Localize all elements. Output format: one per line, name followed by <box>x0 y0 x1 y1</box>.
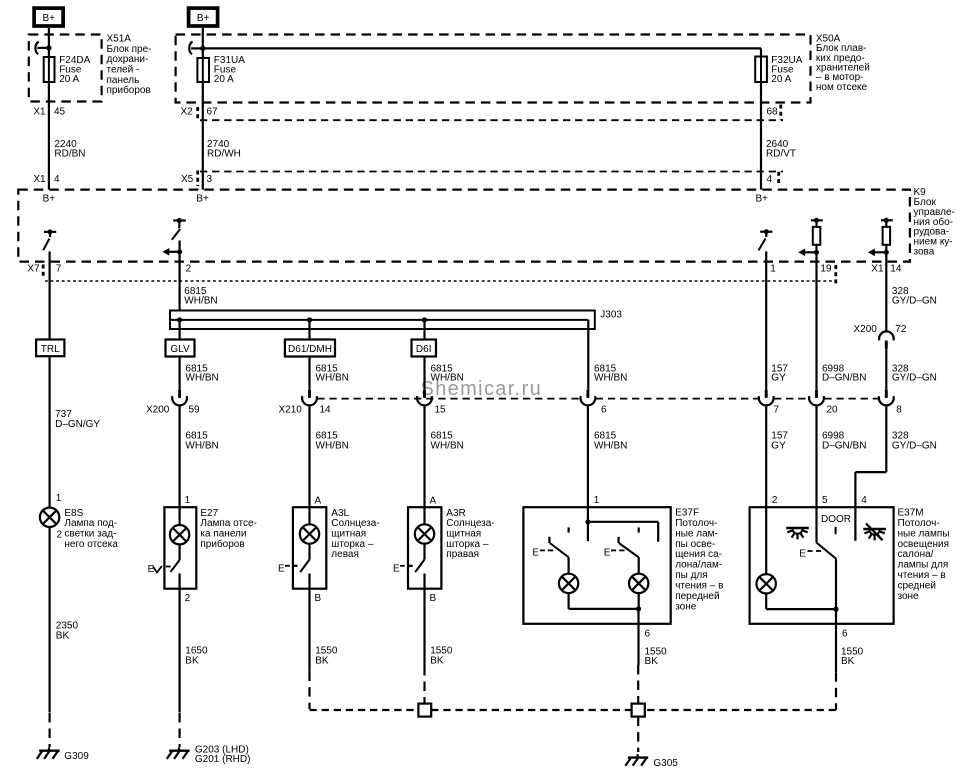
svg-text:B: B <box>430 593 437 604</box>
wire K9 to X7 pin 7 <box>48 251 50 261</box>
switch blade right E37F <box>619 543 639 557</box>
svg-text:GY/D–GN: GY/D–GN <box>892 440 937 451</box>
dome lamp unit E37M (box) <box>750 507 894 624</box>
svg-text:GY/D–GN: GY/D–GN <box>892 296 937 307</box>
wire D61 tag to connector <box>308 357 310 390</box>
svg-text:A: A <box>430 495 437 506</box>
svg-text:DOOR: DOOR <box>821 514 851 525</box>
wire pin7 to E37M pin2 <box>765 405 767 507</box>
connector pin 4 label right <box>767 172 779 186</box>
svg-text:X2: X2 <box>181 107 194 118</box>
svg-text:E: E <box>532 547 539 558</box>
lamp right in E37F <box>629 574 648 593</box>
switch in K9 (E37M feed) <box>759 229 773 250</box>
svg-text:A3R: A3R <box>446 508 465 519</box>
svg-text:WH/BN: WH/BN <box>185 440 218 451</box>
connector label X1 pin 14 <box>871 263 902 274</box>
wire fuse F31UA down <box>202 82 204 190</box>
svg-text:X200: X200 <box>146 404 170 415</box>
connector row line X5/4 <box>200 171 783 173</box>
svg-text:ка панели: ка панели <box>200 529 246 540</box>
svg-text:4: 4 <box>861 495 867 506</box>
manual actuation A3R <box>393 564 413 575</box>
svg-text:телей -: телей - <box>107 64 140 75</box>
connector row dashed line <box>317 398 878 400</box>
lamp in A3R <box>415 524 434 543</box>
pivot tick right switch E37F <box>617 537 619 543</box>
svg-text:GY/D–GN: GY/D–GN <box>892 373 937 384</box>
fuse block X51A (dashed box) <box>29 35 102 102</box>
wire switch A3L to pinB <box>308 574 310 672</box>
wire E27 pin1 to lamp <box>179 507 181 525</box>
wire 328 below X200 <box>885 349 887 390</box>
connector X200 pin 59 <box>146 390 200 416</box>
wire pin6 to E37F <box>587 405 589 507</box>
svg-text:6: 6 <box>842 629 848 640</box>
svg-text:B+: B+ <box>43 194 56 205</box>
manual actuation E27 <box>148 564 171 575</box>
wire K9 to pin 1 <box>765 251 767 261</box>
svg-text:X200: X200 <box>854 324 878 335</box>
tag GLV <box>166 340 195 357</box>
svg-text:X51A: X51A <box>107 33 132 44</box>
ground G305 <box>625 754 648 766</box>
svg-text:E37F: E37F <box>675 507 699 518</box>
wire pin15 to A3R <box>423 405 425 507</box>
switch blade E27 <box>171 560 180 572</box>
splice J303 <box>170 311 595 330</box>
svg-text:E: E <box>148 564 155 575</box>
wire blade to lamp right E37F <box>638 557 640 574</box>
wire E37M pin2 to lamp <box>765 507 767 574</box>
svg-text:Лампа отсе-: Лампа отсе- <box>200 518 256 529</box>
svg-text:2: 2 <box>57 529 63 540</box>
connector label X2 pin 67 <box>181 107 219 121</box>
svg-text:BK: BK <box>315 655 329 666</box>
svg-text:WH/BN: WH/BN <box>316 440 349 451</box>
wire J303 to E37F pin1 <box>587 320 589 390</box>
svg-text:Лампа под-: Лампа под- <box>64 518 117 529</box>
svg-text:4: 4 <box>54 174 60 185</box>
illumination icon right E37M <box>863 523 886 540</box>
wire GLV bus to tag <box>179 320 181 340</box>
connector pin 15 <box>417 390 446 416</box>
connector X210 pin 14 <box>279 390 332 416</box>
svg-text:чтения – в: чтения – в <box>898 570 946 581</box>
svg-text:X7: X7 <box>27 263 40 274</box>
switch blade A3L <box>300 560 309 573</box>
svg-text:GY: GY <box>771 373 786 384</box>
lamp in A3L <box>300 524 319 543</box>
connector pin 20 <box>809 390 838 416</box>
svg-text:67: 67 <box>207 107 219 118</box>
ground G309 <box>37 747 60 759</box>
wire E37F pin1 internal <box>587 507 589 541</box>
svg-text:щитная: щитная <box>331 529 366 540</box>
svg-text:D–GN/BN: D–GN/BN <box>822 373 866 384</box>
svg-text:X5: X5 <box>181 174 194 185</box>
svg-text:7: 7 <box>56 263 62 274</box>
svg-text:3: 3 <box>207 174 213 185</box>
connector pin 8 <box>879 390 902 416</box>
svg-text:TRL: TRL <box>41 344 60 355</box>
wire pin8 to E37M pin4 (jog) <box>855 405 886 507</box>
wire E8S down <box>48 527 50 713</box>
svg-text:X1: X1 <box>871 263 884 274</box>
svg-text:1: 1 <box>770 263 776 274</box>
manual actuation right E37F <box>604 547 625 558</box>
svg-text:68: 68 <box>767 107 779 118</box>
svg-text:B+: B+ <box>42 13 55 24</box>
fuse F32UA 20A <box>755 57 767 83</box>
connector X200 pin 72 <box>854 324 907 349</box>
svg-text:зова: зова <box>914 246 935 257</box>
wire D61 bus to tag <box>308 320 310 340</box>
svg-text:шторка –: шторка – <box>446 539 489 550</box>
wire E37M dashed to splice line <box>645 672 836 710</box>
lamp in E27 <box>170 525 189 544</box>
lamp in E37M <box>757 574 776 593</box>
wire fuse F24DA to connector X1-45 <box>48 82 50 190</box>
wire E37F dashed to splice S2 <box>637 665 639 704</box>
svg-text:ные лампы: ные лампы <box>898 528 950 539</box>
wire K9 to pin 2 <box>179 241 181 262</box>
svg-text:1: 1 <box>594 495 600 506</box>
svg-text:B: B <box>315 593 322 604</box>
svg-text:1: 1 <box>56 493 62 504</box>
wire GLV tag to connector <box>179 357 181 390</box>
wire switch E37M down <box>835 559 837 610</box>
svg-text:E: E <box>604 547 611 558</box>
switch in K9 (GLV feed) <box>172 218 186 240</box>
svg-text:14: 14 <box>320 404 332 415</box>
svg-text:B+: B+ <box>197 13 210 24</box>
manual actuation A3L <box>278 564 298 575</box>
svg-text:6: 6 <box>601 404 607 415</box>
svg-text:WH/BN: WH/BN <box>316 373 349 384</box>
ground G203/G201 <box>167 747 190 759</box>
pin 19 label <box>820 263 835 283</box>
svg-text:E: E <box>278 564 285 575</box>
svg-text:пы осве-: пы осве- <box>675 539 715 550</box>
svg-text:WH/BN: WH/BN <box>185 373 218 384</box>
wire 157 column upper <box>765 262 767 390</box>
wire A3L pinA to lamp <box>308 507 310 524</box>
svg-text:зоне: зоне <box>675 601 697 612</box>
node on J303 (D6I) <box>422 317 427 322</box>
svg-text:E: E <box>799 549 806 560</box>
svg-text:приборов: приборов <box>200 538 244 550</box>
sunshade motor unit A3L (box) <box>293 507 326 589</box>
switch blade left E37F <box>550 543 569 557</box>
svg-text:45: 45 <box>54 107 66 118</box>
svg-text:лона/лам-: лона/лам- <box>675 560 722 571</box>
svg-text:B+: B+ <box>196 194 209 205</box>
svg-text:ные лам-: ные лам- <box>675 528 718 539</box>
power symbol B+ (right) <box>189 8 218 26</box>
svg-text:E8S: E8S <box>64 508 83 519</box>
wire A3L dashed to splice <box>310 672 419 710</box>
svg-text:A: A <box>315 495 322 506</box>
DOOR label <box>821 514 851 534</box>
node on J303 (GLV) <box>177 317 182 322</box>
svg-text:пы для: пы для <box>675 570 707 581</box>
wire A3R dashed to splice <box>423 666 425 704</box>
svg-text:Солнцеза-: Солнцеза- <box>331 518 379 529</box>
svg-text:RD/VT: RD/VT <box>766 149 796 160</box>
svg-text:правая: правая <box>446 549 479 560</box>
wire switch A3R to pinB <box>423 574 425 667</box>
wire lamp to switch A3R <box>423 544 425 560</box>
svg-text:щения са-: щения са- <box>675 549 722 560</box>
arrow output GLV feed <box>162 248 182 256</box>
module K9 (dashed box) <box>18 190 910 262</box>
connector pin 68 label <box>767 105 781 120</box>
svg-text:D–GN/GY: D–GN/GY <box>55 419 100 430</box>
power symbol B+ (left) <box>34 8 63 26</box>
arrow output pin 14 <box>868 249 889 257</box>
svg-text:D61/DMH: D61/DMH <box>288 344 332 355</box>
wire X210-14 to A3L <box>308 405 310 507</box>
svg-text:1: 1 <box>185 495 191 506</box>
svg-text:X1: X1 <box>33 107 46 118</box>
wire K9 to pin 19 <box>815 245 817 262</box>
wire switch E27 to pin2 <box>179 573 181 712</box>
svg-text:панель: панель <box>107 75 140 86</box>
wire E37M pin6 exit <box>835 609 837 672</box>
svg-text:зоне: зоне <box>898 591 920 602</box>
feed branch E37F right <box>588 522 658 542</box>
bus tap curl in X50A <box>189 42 205 55</box>
svg-text:WH/BN: WH/BN <box>431 373 464 384</box>
svg-text:D–GN/BN: D–GN/BN <box>822 440 866 451</box>
wire blade to lamp left E37F <box>567 557 569 574</box>
svg-text:59: 59 <box>189 404 201 415</box>
svg-text:A3L: A3L <box>331 508 349 519</box>
driver output in K9 (pin 19) <box>811 218 823 245</box>
wire E27 dashed to ground <box>179 713 181 747</box>
manual actuation left E37F <box>532 547 553 558</box>
svg-text:E27: E27 <box>200 508 218 519</box>
svg-text:левая: левая <box>331 549 359 560</box>
wire pin20 to E37M pin5 <box>815 405 817 507</box>
svg-text:G305: G305 <box>653 758 678 769</box>
tag D61/DMH <box>285 340 335 357</box>
svg-text:D6I: D6I <box>416 344 432 355</box>
svg-text:Солнцеза-: Солнцеза- <box>446 518 494 529</box>
wire B+ right down <box>202 28 204 58</box>
lamp return wires E37F <box>569 593 642 611</box>
connector pin 6 <box>580 390 607 416</box>
connector label X1 pin 4 <box>33 174 60 185</box>
svg-text:RD/BN: RD/BN <box>54 149 85 160</box>
wire lamp to switch A3L <box>308 544 310 560</box>
svg-text:WH/BN: WH/BN <box>184 296 217 307</box>
driver output in K9 (pin 14) <box>881 218 893 245</box>
fuse F24DA 20A <box>44 57 55 82</box>
lamp return wire E37M <box>766 594 838 612</box>
svg-text:передней: передней <box>675 591 719 602</box>
svg-text:салона/: салона/ <box>898 549 934 560</box>
svg-text:20 A: 20 A <box>59 74 79 85</box>
svg-text:Потолоч-: Потолоч- <box>898 518 940 529</box>
wire lamp to switch E27 <box>179 544 181 560</box>
svg-text:X210: X210 <box>279 404 303 415</box>
svg-text:15: 15 <box>435 404 447 415</box>
svg-text:ном отсеке: ном отсеке <box>816 82 868 93</box>
lamp left in E37F <box>559 574 578 593</box>
svg-text:GLV: GLV <box>170 344 190 355</box>
wire B+ left down <box>48 28 50 57</box>
svg-text:RD/WH: RD/WH <box>207 149 241 160</box>
harness boundary dotted line <box>45 280 836 282</box>
wire 6998 column upper <box>815 262 817 390</box>
connector row line X2/68 <box>200 119 783 121</box>
svg-text:WH/BN: WH/BN <box>594 440 627 451</box>
svg-text:чтения – в: чтения – в <box>675 581 723 592</box>
wire GLV column to splice bus <box>179 262 181 311</box>
fuse F31UA 20A <box>197 58 209 82</box>
contact tick left switch E37F <box>567 527 569 532</box>
svg-text:BK: BK <box>841 656 855 667</box>
wire X200-59 to E27 <box>179 405 181 507</box>
svg-text:4: 4 <box>767 174 773 185</box>
wire A3R pinA to lamp <box>423 507 425 524</box>
manual actuation E37M <box>799 549 821 560</box>
wire fuse F32UA down <box>760 82 762 190</box>
svg-text:14: 14 <box>890 263 902 274</box>
svg-text:20: 20 <box>827 404 839 415</box>
arrow output pin 19 <box>798 249 819 257</box>
svg-text:J303: J303 <box>600 310 622 321</box>
svg-text:GY: GY <box>771 440 786 451</box>
feed wire to F32UA <box>203 48 761 56</box>
svg-text:шторка –: шторка – <box>331 539 374 550</box>
svg-text:8: 8 <box>896 404 902 415</box>
wire E37M pin4 internal <box>854 507 856 541</box>
svg-text:E37M: E37M <box>898 507 924 518</box>
svg-text:7: 7 <box>774 404 780 415</box>
node on J303 (D61) <box>307 317 312 322</box>
switch blade A3R <box>415 560 424 573</box>
switch blade E37M <box>817 543 837 559</box>
splice S1 <box>418 704 431 717</box>
lamp unit E27 (box) <box>164 507 196 589</box>
svg-text:него отсека: него отсека <box>64 539 118 550</box>
svg-text:2: 2 <box>186 263 192 274</box>
wire 328 column upper <box>885 262 887 332</box>
svg-text:светки зад-: светки зад- <box>64 529 116 540</box>
illumination icon left E37M <box>786 528 809 539</box>
svg-text:20 A: 20 A <box>214 74 234 85</box>
wire D6I tag to connector <box>423 357 425 390</box>
svg-text:B+: B+ <box>756 194 769 205</box>
svg-text:2: 2 <box>772 495 778 506</box>
svg-text:дохрани-: дохрани- <box>107 54 149 65</box>
sunshade motor unit A3R (box) <box>408 507 441 589</box>
svg-text:BK: BK <box>645 656 659 667</box>
connector label X7 pin 7 <box>27 263 62 277</box>
pivot tick left switch E37F <box>548 537 550 543</box>
node E37F feed <box>585 519 590 524</box>
svg-text:6: 6 <box>645 629 651 640</box>
bus tap curl in X51A <box>35 42 51 55</box>
svg-text:Блок пре-: Блок пре- <box>107 44 152 55</box>
svg-text:5: 5 <box>822 495 828 506</box>
wire E37F pin6 exit <box>637 609 639 665</box>
tag TRL <box>36 340 64 357</box>
svg-text:BK: BK <box>430 655 444 666</box>
connector label X5 pin 3 <box>181 171 213 187</box>
svg-text:G309: G309 <box>64 751 89 762</box>
svg-text:WH/BN: WH/BN <box>594 373 627 384</box>
wire S2 dashed to ground <box>637 717 639 752</box>
tag D6I <box>412 340 437 357</box>
svg-text:72: 72 <box>895 324 907 335</box>
switch in K9 (left, TRL feed) <box>43 229 56 250</box>
svg-text:G201 (RHD): G201 (RHD) <box>195 754 251 765</box>
svg-text:щитная: щитная <box>446 529 481 540</box>
svg-text:BK: BK <box>56 630 70 641</box>
splice S2 <box>632 704 645 717</box>
svg-text:X1: X1 <box>33 174 46 185</box>
svg-text:20 A: 20 A <box>771 74 791 85</box>
svg-text:E: E <box>393 564 400 575</box>
wire TRL down <box>48 356 50 508</box>
svg-text:Потолоч-: Потолоч- <box>675 518 717 529</box>
wire E37M pin5 internal <box>815 507 817 543</box>
connector pin 7 <box>759 390 780 416</box>
connector label X1 pin 45 <box>33 107 65 118</box>
contact tick right switch E37F <box>638 527 640 532</box>
svg-text:лампы для: лампы для <box>898 560 949 571</box>
fuse block X50A (dashed box) <box>176 35 811 103</box>
wire D6I bus to tag <box>423 320 425 340</box>
svg-text:освещения: освещения <box>898 539 950 550</box>
wire TRL column upper <box>48 262 50 340</box>
svg-text:WH/BN: WH/BN <box>431 440 464 451</box>
svg-text:средней: средней <box>898 581 936 592</box>
dome lamp unit E37F (box) <box>523 507 670 624</box>
svg-text:19: 19 <box>820 263 832 274</box>
ground bus dashed line middle <box>431 709 631 711</box>
svg-text:2: 2 <box>185 593 191 604</box>
svg-text:BK: BK <box>185 655 199 666</box>
wire E8S dashed to ground <box>48 713 50 747</box>
lamp E8S <box>40 508 59 527</box>
wire K9 to pin X1-14 <box>885 245 887 262</box>
svg-text:приборов: приборов <box>107 84 151 96</box>
